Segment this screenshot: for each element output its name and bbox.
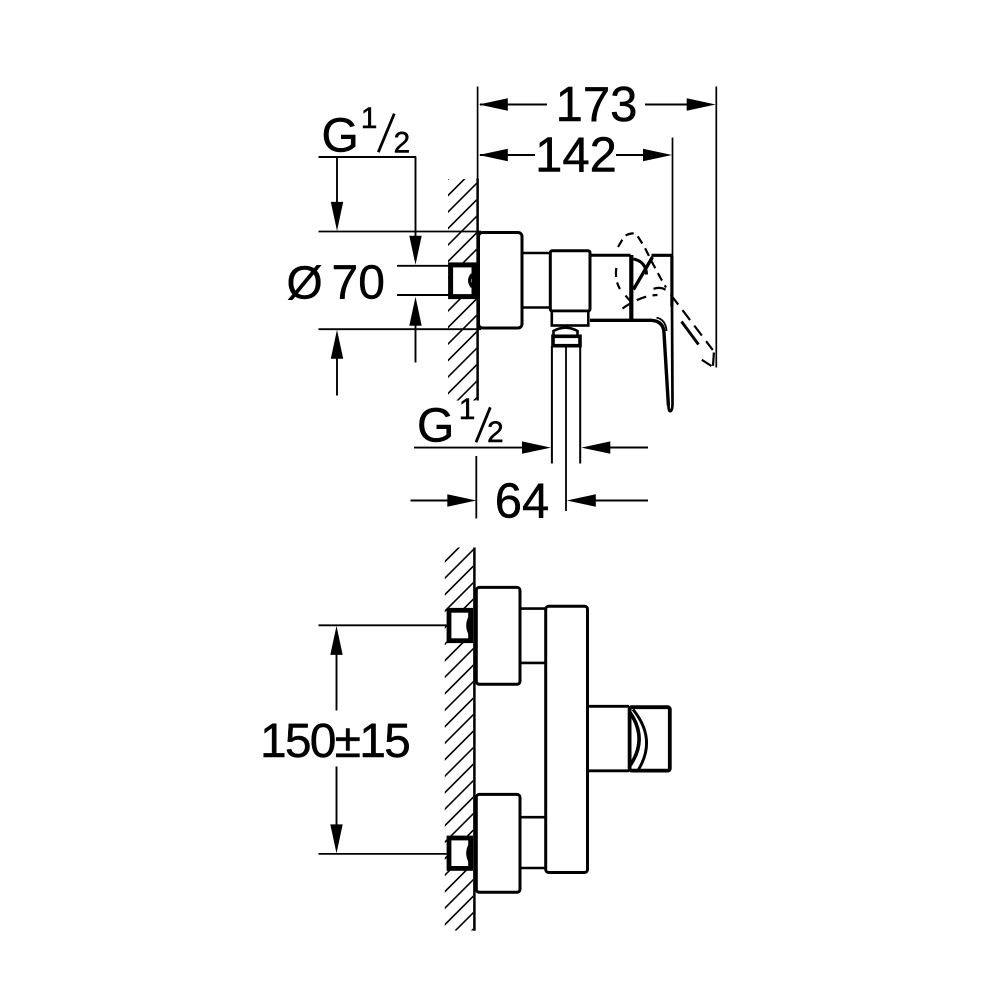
lower square connector xyxy=(449,838,471,868)
cone arc (lever pivot dome) xyxy=(634,259,647,275)
upper square connector xyxy=(449,610,471,640)
svg-text:G: G xyxy=(322,110,359,163)
svg-text:2: 2 xyxy=(394,127,411,160)
svg-text:1: 1 xyxy=(361,102,378,135)
body plate (front) xyxy=(546,606,588,872)
mixer body (side) xyxy=(550,251,590,311)
Ø70 dimension arrows xyxy=(331,158,343,396)
neck between flange and body xyxy=(522,252,550,255)
shower hose outer lines xyxy=(551,346,553,464)
svg-text:64: 64 xyxy=(495,475,550,529)
upper neck lines xyxy=(520,607,546,610)
upper union escutcheon xyxy=(476,587,520,684)
handle base cap xyxy=(652,255,674,306)
wall hatch (bottom view) xyxy=(445,548,473,931)
cone slant line xyxy=(634,257,653,290)
cartridge cylinder xyxy=(590,255,631,320)
lever (solid, closed position) xyxy=(590,307,673,412)
lower union escutcheon xyxy=(476,794,520,892)
G1/2 hose leader + arrows xyxy=(414,441,648,453)
hose nut top piece xyxy=(554,328,578,336)
150 extension lines xyxy=(319,624,447,626)
lever dashed (open position) xyxy=(623,288,714,366)
label G 1/2 (top) xyxy=(322,102,411,163)
svg-text:173: 173 xyxy=(556,78,638,132)
svg-text:2: 2 xyxy=(487,416,504,449)
label G 1/2 (hose) xyxy=(417,393,504,453)
body lower housing xyxy=(552,311,589,326)
wall hatch (top view) xyxy=(448,179,476,401)
escutcheon flange (side) xyxy=(479,233,523,329)
lower neck lines xyxy=(520,816,546,819)
dimension 173 line + arrows xyxy=(479,98,716,110)
dimension 142 line + arrows xyxy=(479,149,672,161)
handle knob (front) xyxy=(630,707,670,770)
dimension text Ø 70 xyxy=(287,257,385,310)
dimension 64 line + arrows xyxy=(411,494,649,506)
G1/2 leader underline (top) xyxy=(319,156,417,158)
handle stem (front) xyxy=(588,706,630,771)
lever dashed (up position) xyxy=(616,233,666,304)
64 wall extension line xyxy=(475,456,477,519)
knob crescent xyxy=(630,710,647,770)
dimension 150±15 line + arrows xyxy=(330,626,342,854)
hose center line xyxy=(565,347,567,512)
dimension 173 extension line (right) xyxy=(715,87,717,368)
svg-text:150±15: 150±15 xyxy=(260,715,409,768)
wall surface line (top view) xyxy=(477,87,479,179)
square wall connector (top view) xyxy=(451,265,474,297)
svg-text:70: 70 xyxy=(332,257,385,310)
dimension 142 extension line (right) xyxy=(672,138,674,258)
svg-text:G: G xyxy=(417,400,454,453)
svg-text:1: 1 xyxy=(459,393,476,426)
thread extension lines (short) xyxy=(397,265,449,267)
G1/2 dimension arrows (thread at wall) xyxy=(409,157,421,363)
wall surface line (bottom view) xyxy=(473,548,476,931)
flange diameter extension lines xyxy=(319,231,482,233)
svg-text:142: 142 xyxy=(535,129,617,183)
hose nut xyxy=(553,336,580,345)
svg-text:Ø: Ø xyxy=(287,257,323,309)
